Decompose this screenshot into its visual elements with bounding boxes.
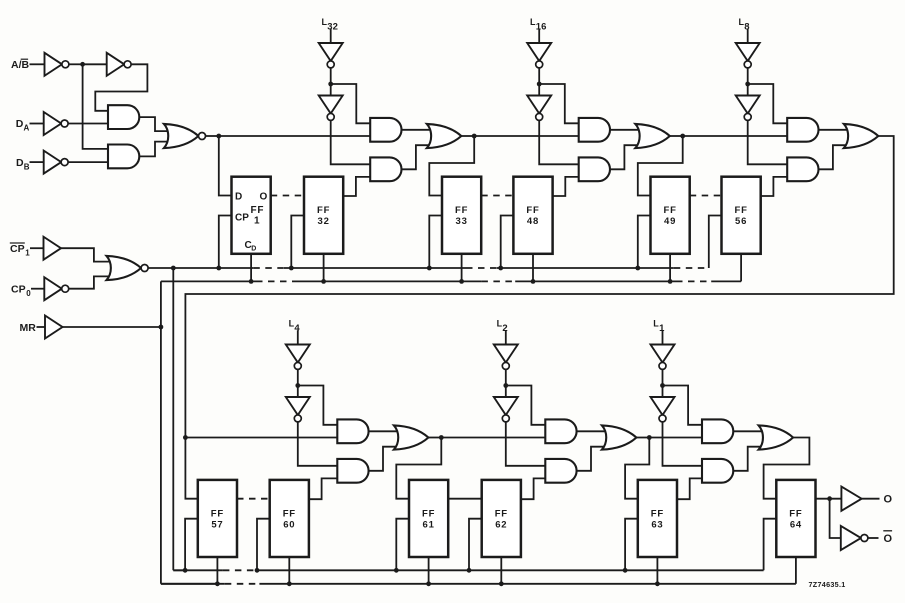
and-gate L2 select (lower)	[545, 459, 576, 483]
wire L4 lower AND to OR	[369, 447, 398, 471]
wire CP1 stub	[30, 247, 44, 249]
wire bottom clock bus dashed gap	[223, 569, 257, 571]
or-gate clock NOR U2	[107, 256, 149, 280]
svg-text:B: B	[24, 162, 30, 171]
inverter L2 second	[494, 397, 518, 422]
wire FF57 D input feed	[185, 438, 197, 499]
wire serial bus L16 to L8	[683, 135, 788, 137]
or-gate L16 merge	[635, 124, 670, 148]
wire L4 OR output to bus node	[428, 437, 441, 439]
wire L16 inverter chain	[538, 68, 540, 96]
wire L16 inverted branch to AND top input	[539, 84, 579, 123]
flip-flop FF48	[513, 177, 552, 254]
svg-text:D: D	[235, 191, 242, 202]
node FF33 CD on CD bus	[459, 279, 464, 284]
label MR input	[20, 322, 37, 334]
label CP1 overline	[10, 242, 25, 244]
svg-text:FF: FF	[663, 205, 676, 216]
svg-text:O: O	[884, 494, 893, 506]
wire FF57 CP pin to bottom clock bus	[185, 519, 198, 571]
svg-text:48: 48	[527, 216, 539, 227]
node FF60 CD on bottom CD bus	[287, 581, 292, 586]
flip-flop FF61	[409, 480, 448, 557]
svg-text:O: O	[884, 533, 893, 545]
wire FF63 CD pin to bottom CD bus	[656, 557, 658, 584]
svg-text:FF: FF	[251, 205, 265, 216]
wire FF63 O output to L-select lower AND	[677, 478, 702, 499]
wire FF56 O output to L-select lower AND	[761, 177, 788, 196]
wire FF60 CP pin to bottom clock bus	[257, 519, 270, 571]
flip-flop FF63	[638, 480, 677, 557]
wire L1 lower AND to OR	[733, 447, 762, 471]
inverter L8 second	[736, 96, 760, 121]
label L8 subscript	[744, 22, 749, 33]
wire CD bus segment 1	[161, 280, 256, 282]
svg-text:FF: FF	[211, 508, 224, 519]
wire bottom serial bus to L4 AND	[185, 437, 337, 439]
flip-flop FF57	[198, 480, 237, 557]
wire L2 upper AND to OR	[577, 430, 606, 432]
label DB input	[16, 157, 24, 169]
wire L1 OR output to FF64 D input	[764, 438, 810, 499]
and-gate L2 bypass (upper)	[545, 419, 576, 443]
wire FF33 CP pin to clock bus	[429, 216, 442, 269]
wire FF56 CP pin to clock bus end	[709, 216, 722, 269]
flip-flop FF56	[722, 177, 761, 254]
buffer DA input	[44, 112, 68, 135]
label A/B overline	[21, 58, 28, 60]
node FF1 CD on CD bus	[249, 279, 254, 284]
svg-text:7Z74635.1: 7Z74635.1	[809, 580, 846, 589]
wire L4 stub	[297, 330, 299, 344]
wire L2 inverter chain	[505, 369, 507, 397]
wire L8 lower AND to OR	[819, 145, 848, 169]
or-gate L32 merge	[427, 124, 462, 148]
wire L8 reinverted to lower AND	[748, 120, 788, 164]
node FF48 CD on CD bus	[531, 279, 536, 284]
svg-text:57: 57	[211, 519, 223, 530]
wire CD bus segment 3	[515, 280, 676, 282]
svg-text:62: 62	[495, 519, 507, 530]
wire MR rail to bottom CD bus corner	[161, 583, 220, 585]
inverter L16 first	[527, 43, 551, 68]
node bottom serial bus start	[183, 435, 188, 440]
flip-flop FF64	[776, 480, 815, 557]
wire L1 upper AND to OR	[733, 430, 762, 432]
wire FF32 CD pin to CD bus	[323, 254, 325, 282]
wire CP1 buffer to clock NOR	[61, 248, 111, 261]
node L2 OR output	[647, 435, 652, 440]
svg-text:1: 1	[254, 216, 260, 227]
label L16 input	[530, 17, 536, 27]
inverter L4 first	[286, 345, 310, 370]
wire L4 OR output down to FF61 D input	[396, 438, 441, 499]
node L8 inverted	[745, 82, 750, 87]
svg-text:A: A	[24, 124, 30, 133]
label L1 input	[653, 319, 659, 329]
flip-flop FF1	[232, 177, 271, 254]
or-gate input NOR U1	[164, 124, 206, 148]
wire NOR output to serial node	[205, 135, 219, 137]
node FF49 CP on clock bus	[635, 266, 640, 271]
wire L2 OR output to bus node	[636, 437, 649, 439]
wire serial feedback from L8 OR to bottom row	[185, 136, 893, 438]
label L4 input	[289, 319, 295, 329]
node FF62 CP on bottom clock bus	[467, 568, 472, 573]
svg-text:49: 49	[664, 216, 676, 227]
wire L4 reinverted to lower AND	[298, 422, 338, 466]
node FF63 CD on bottom CD bus	[655, 581, 660, 586]
wire CD bus dashed gap 2	[481, 280, 515, 282]
svg-text:33: 33	[456, 216, 468, 227]
wire FF57 CD pin to bottom CD bus	[216, 557, 218, 584]
wire L16 stub	[538, 29, 540, 43]
svg-text:FF: FF	[651, 508, 664, 519]
and-gate L1 select (lower)	[702, 459, 733, 483]
wire FF48 CP pin to clock bus	[501, 216, 514, 269]
inverter L1 second	[651, 397, 675, 422]
or-gate L2 merge	[602, 425, 637, 449]
wire MR stub	[37, 326, 46, 328]
wire FF56 CD pin to CD bus end	[740, 254, 742, 282]
wire A/B node down to AND gate B top input	[83, 64, 108, 149]
node L32 inverted	[328, 82, 333, 87]
wire CP0 stub	[31, 288, 44, 290]
wire O-bar output	[868, 537, 879, 539]
wire FF33 CD pin to CD bus	[461, 254, 463, 282]
node clock bus to CP rail	[171, 266, 176, 271]
and-gate L8 select (lower)	[787, 157, 818, 181]
svg-text:A/B: A/B	[11, 59, 30, 71]
node L2 inverted	[503, 383, 508, 388]
svg-text:FF: FF	[317, 205, 330, 216]
node L32 OR output	[472, 134, 477, 139]
wire L32 stub	[330, 29, 332, 43]
svg-text:64: 64	[790, 519, 802, 530]
buffer A/B input	[45, 53, 69, 76]
inverter L32 first	[319, 43, 343, 68]
label L2 input	[497, 319, 503, 329]
svg-text:FF: FF	[422, 508, 435, 519]
wire FF48 CD pin to CD bus	[532, 254, 534, 282]
svg-text:FF: FF	[283, 508, 296, 519]
svg-text:D: D	[251, 246, 256, 253]
and-gate L16 select (lower)	[579, 157, 610, 181]
wire FF60 CD pin to bottom CD bus	[288, 557, 290, 584]
node FF48 CP on clock bus	[498, 266, 503, 271]
wire clock bus dashed gap 1	[253, 267, 284, 269]
wire FF32 CP pin to clock bus	[291, 216, 304, 269]
inverter A/B second stage	[107, 53, 131, 76]
wire clock bus segment 3	[497, 267, 674, 269]
wire FF57 O to FF60 D dashed (omitted stages)	[237, 498, 270, 500]
buffer O-bar output	[841, 526, 868, 550]
node FF60 CP on bottom clock bus	[255, 568, 260, 573]
svg-text:FF: FF	[495, 508, 508, 519]
svg-text:61: 61	[423, 519, 435, 530]
svg-text:FF: FF	[526, 205, 539, 216]
node output branch	[827, 496, 832, 501]
wire L8 upper AND to OR	[819, 129, 848, 131]
node serial input	[216, 134, 221, 139]
wire FF60 O output to L-select lower AND	[309, 478, 337, 499]
node FF1 CP on clock bus	[216, 266, 221, 271]
wire FF49 CD pin to CD bus	[669, 254, 671, 282]
wire DB to AND gate B	[68, 161, 108, 163]
node FF32 CP on clock bus	[289, 266, 294, 271]
node FF49 CD on CD bus	[668, 279, 673, 284]
wire CD bus segment 4	[711, 280, 741, 282]
svg-text:60: 60	[283, 519, 295, 530]
svg-text:FF: FF	[455, 205, 468, 216]
wire DA stub	[30, 123, 44, 125]
wire L16 reinverted to lower AND	[539, 120, 579, 164]
inverter L2 first	[494, 345, 518, 370]
wire L32 reinverted to lower AND	[331, 120, 371, 164]
wire FF1 O to FF32 D dashed (omitted stages)	[271, 195, 304, 197]
svg-text:56: 56	[735, 216, 747, 227]
wire L32 inverted branch to AND top input	[331, 84, 371, 123]
wire FF1 CP pin to clock bus	[219, 216, 232, 269]
wire FF64 O output	[816, 498, 842, 500]
node FF61 CP on bottom clock bus	[394, 568, 399, 573]
buffer DB input	[44, 151, 68, 174]
wire bottom CD bus segment 1	[161, 583, 225, 585]
wire L2 inverted branch to AND top input	[506, 386, 546, 425]
label L32 subscript	[327, 22, 338, 33]
flip-flop FF62	[482, 480, 521, 557]
inverter L8 first	[736, 43, 760, 68]
wire FF62 O output to L-select lower AND	[521, 478, 545, 499]
label L1 subscript	[659, 323, 665, 334]
svg-text:CP: CP	[10, 243, 25, 255]
svg-text:MR: MR	[20, 322, 37, 334]
wire FF64 CP pin to bottom clock bus end	[764, 519, 777, 571]
wire FF49 CP pin to clock bus	[638, 216, 651, 269]
label O output	[884, 494, 893, 506]
label CP0 subscript	[26, 289, 31, 298]
wire A/B node to inverter	[83, 63, 107, 65]
and-gate L8 bypass (upper)	[787, 118, 818, 142]
buffer CP1 input	[44, 237, 62, 260]
node FF61 CD on bottom CD bus	[426, 581, 431, 586]
wire AND A output to input NOR	[139, 117, 167, 131]
svg-text:FF: FF	[789, 508, 802, 519]
wire L1 stub	[662, 330, 664, 344]
label drawing number 7Z74635.1	[809, 580, 846, 589]
wire L16 OR output down to FF49 D input	[638, 136, 683, 196]
label CP1 subscript	[25, 248, 30, 257]
wire CP vertical rail	[172, 268, 174, 570]
wire L32 lower AND to OR	[402, 145, 431, 169]
wire FF61 CD pin to bottom CD bus	[428, 557, 430, 584]
wire serial bus input to L32 AND	[219, 135, 370, 137]
and-gate A (A-data select)	[108, 105, 139, 129]
wire L2 reinverted to lower AND	[506, 422, 546, 466]
and-gate L4 select (lower)	[337, 459, 368, 483]
label L8 input	[739, 17, 745, 27]
wire A/B stub	[30, 63, 45, 65]
label CP0 input	[11, 283, 26, 295]
svg-text:1: 1	[25, 248, 30, 257]
wire inverted A/B to AND gate A top input	[95, 64, 147, 111]
svg-text:O: O	[260, 191, 268, 202]
wire FF48 O output to L-select lower AND	[553, 177, 579, 196]
wire bottom CD bus segment 2	[259, 583, 796, 585]
and-gate B (B-data select)	[108, 145, 139, 169]
wire CP rail to bottom clock bus corner	[173, 569, 187, 571]
wire bottom clock bus segment 1	[173, 569, 223, 571]
node L16 inverted	[537, 82, 542, 87]
node FF57 CD on bottom CD bus	[215, 581, 220, 586]
and-gate L1 bypass (upper)	[702, 419, 733, 443]
wire FF61 O to FF62 D direct	[448, 498, 482, 500]
node L16 OR output	[680, 134, 685, 139]
wire branch to inverted output buffer	[830, 499, 841, 538]
or-gate L1 merge	[759, 425, 794, 449]
wire MR vertical rail	[160, 281, 162, 583]
label L2 subscript	[502, 323, 507, 334]
node L1 inverted	[660, 383, 665, 388]
or-gate L4 merge	[394, 425, 429, 449]
inverter L4 second	[286, 397, 310, 422]
buffer CP0 input	[44, 277, 68, 300]
node FF62 CD on bottom CD bus	[499, 581, 504, 586]
wire bottom CD bus dashed gap	[225, 583, 260, 585]
wire FF49 O to FF56 D dashed (omitted stages)	[690, 195, 722, 197]
wire L2 stub	[505, 330, 507, 344]
and-gate L16 bypass (upper)	[579, 118, 610, 142]
wire L32 inverter chain	[330, 68, 332, 96]
inverter L16 second	[527, 96, 551, 121]
wire L32 upper AND to OR	[402, 129, 431, 131]
wire L1 reinverted to lower AND	[663, 422, 703, 466]
wire FF63 CP pin to bottom clock bus	[625, 519, 638, 571]
wire O output	[862, 498, 880, 500]
inverter L1 first	[651, 345, 675, 370]
and-gate L32 bypass (upper)	[370, 118, 401, 142]
wire FF33 O to FF48 D dashed (omitted stages)	[481, 195, 513, 197]
wire L8 inverter chain	[747, 68, 749, 96]
label L32 input	[322, 17, 328, 27]
wire CD bus dashed gap 3	[676, 280, 711, 282]
wire L32 OR output down to FF33 D input	[429, 136, 474, 196]
wire CP0 buffer to clock NOR	[69, 276, 111, 288]
wire L8 inverted branch to AND top input	[748, 84, 788, 123]
wire DA to AND gate A	[68, 123, 108, 125]
wire L1 inverted branch to AND top input	[663, 386, 703, 425]
wire AND B output to input NOR	[139, 142, 167, 157]
wire FF62 CP pin to bottom clock bus	[469, 519, 482, 571]
node A/B branch	[80, 62, 85, 67]
svg-text:CP: CP	[235, 213, 249, 224]
svg-text:32: 32	[327, 22, 338, 33]
buffer MR input	[45, 316, 63, 339]
wire L4 upper AND to OR	[369, 430, 398, 432]
wire L2 OR output down to FF63 D input	[625, 438, 649, 499]
wire clock bus segment 1	[148, 267, 253, 269]
wire CD bus dashed gap 1	[256, 280, 293, 282]
svg-text:32: 32	[318, 216, 330, 227]
wire FF61 CP pin to bottom clock bus	[396, 519, 409, 571]
wire FF1 CD pin to CD bus	[250, 254, 252, 282]
wire MR buffer to node	[63, 326, 161, 328]
flip-flop FF49	[651, 177, 690, 254]
svg-text:0: 0	[26, 289, 31, 298]
wire L4 inverter chain	[297, 369, 299, 397]
wire bottom clock bus segment 2	[257, 569, 764, 571]
svg-text:FF: FF	[734, 205, 747, 216]
wire L8 stub	[747, 29, 749, 43]
label O-bar overline	[883, 530, 892, 532]
wire serial bus L32 to L16	[474, 135, 579, 137]
inverter L32 second	[319, 96, 343, 121]
node L4 OR output	[439, 435, 444, 440]
wire clock bus segment 2	[284, 267, 466, 269]
wire bottom serial bus L4 to L2	[441, 437, 545, 439]
label DA input	[16, 118, 24, 130]
label DB subscript	[24, 162, 30, 171]
or-gate L8 merge	[844, 124, 879, 148]
label L16 subscript	[536, 22, 547, 33]
wire A/B buffer to node	[69, 63, 83, 65]
flip-flop FF33	[442, 177, 481, 254]
wire L1 inverter chain	[662, 369, 664, 397]
node FF63 CP on bottom clock bus	[623, 568, 628, 573]
node FF57 CP on bottom clock bus	[183, 568, 188, 573]
wire L16 OR output to bus node	[670, 135, 683, 137]
node FF33 CP on clock bus	[427, 266, 432, 271]
node MR	[159, 325, 164, 330]
and-gate L4 bypass (upper)	[337, 419, 368, 443]
and-gate L32 select (lower)	[370, 157, 401, 181]
svg-text:63: 63	[651, 519, 663, 530]
wire L2 lower AND to OR	[577, 447, 606, 471]
buffer O output	[841, 487, 861, 511]
wire DB stub	[30, 161, 44, 163]
svg-text:16: 16	[536, 22, 547, 33]
svg-text:CP: CP	[11, 283, 26, 295]
label CP1 input	[10, 243, 25, 255]
wire L4 inverted branch to AND top input	[298, 386, 338, 425]
wire FF1 D input feed	[219, 136, 232, 196]
wire FF62 CD pin to bottom CD bus	[500, 557, 502, 584]
label A/B input	[11, 59, 30, 71]
label DA subscript	[24, 124, 30, 133]
wire CD bus segment 2	[293, 280, 481, 282]
node L4 inverted	[295, 383, 300, 388]
wire L32 OR output to bus node	[461, 135, 474, 137]
flip-flop FF60	[270, 480, 309, 557]
wire L16 lower AND to OR	[610, 145, 639, 169]
flip-flop FF32	[304, 177, 343, 254]
node FF32 CD on CD bus	[321, 279, 326, 284]
wire clock bus dashed gap 2	[466, 267, 497, 269]
label L4 subscript	[294, 323, 300, 334]
wire FF64 CD pin to bottom CD bus end	[795, 557, 797, 584]
wire clock bus dashed gap 3	[674, 267, 709, 269]
wire L16 upper AND to OR	[610, 129, 639, 131]
wire FF32 O output to L-select lower AND	[343, 177, 370, 196]
label O-bar output	[884, 533, 893, 545]
wire bottom serial bus L2 to L1	[649, 437, 702, 439]
